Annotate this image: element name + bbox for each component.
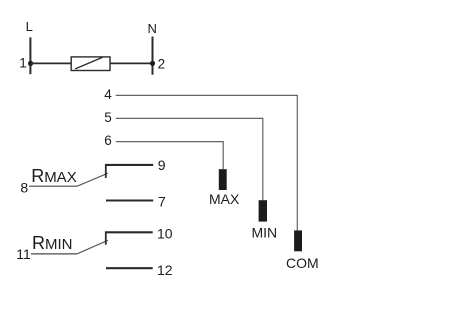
wire terminal 5 to MIN electrode bbox=[116, 118, 263, 200]
svg-text:N: N bbox=[148, 21, 157, 36]
wire pole to terminal 9 bbox=[105, 164, 153, 166]
svg-text:L: L bbox=[26, 19, 33, 34]
electrode MAX bbox=[219, 169, 227, 190]
contact lever RMAX bbox=[77, 173, 108, 186]
junction dot node 2 bbox=[150, 61, 155, 66]
electrode COM bbox=[294, 230, 302, 251]
svg-text:9: 9 bbox=[158, 157, 166, 173]
svg-text:11: 11 bbox=[16, 246, 31, 262]
fixed contact line terminal 7 bbox=[106, 199, 153, 201]
wire terminal 11 bbox=[31, 253, 77, 255]
svg-text:8: 8 bbox=[20, 179, 28, 195]
fixed contact line terminal 12 bbox=[106, 267, 153, 269]
wire fuse to node 2 bbox=[110, 62, 153, 64]
wire pole to terminal 10 bbox=[105, 231, 153, 233]
electrode MIN bbox=[259, 200, 267, 221]
fuse F1 bbox=[71, 57, 110, 71]
svg-text:6: 6 bbox=[104, 133, 112, 148]
contact pole RMAX bbox=[105, 164, 107, 178]
wire N lead bbox=[152, 37, 154, 75]
junction dot node 1 bbox=[28, 61, 33, 66]
wire terminal 8 bbox=[29, 185, 77, 187]
wire terminal 6 to MAX electrode bbox=[116, 142, 223, 170]
svg-text:7: 7 bbox=[158, 194, 166, 210]
svg-text:RMIN: RMIN bbox=[32, 233, 73, 253]
svg-text:10: 10 bbox=[157, 226, 173, 242]
svg-text:4: 4 bbox=[104, 87, 112, 102]
svg-text:COM: COM bbox=[286, 255, 319, 271]
contact pole RMIN bbox=[105, 232, 107, 245]
svg-text:12: 12 bbox=[157, 262, 173, 278]
svg-text:MIN: MIN bbox=[251, 224, 277, 240]
svg-text:5: 5 bbox=[104, 110, 112, 125]
wire node 1 to fuse bbox=[31, 62, 72, 64]
wire L lead bbox=[29, 37, 31, 74]
svg-text:1: 1 bbox=[19, 55, 27, 70]
svg-text:RMAX: RMAX bbox=[31, 166, 77, 186]
svg-text:MAX: MAX bbox=[209, 191, 240, 207]
contact lever RMIN bbox=[77, 240, 108, 254]
wire terminal 4 to COM electrode bbox=[116, 95, 297, 230]
svg-text:2: 2 bbox=[158, 57, 166, 72]
